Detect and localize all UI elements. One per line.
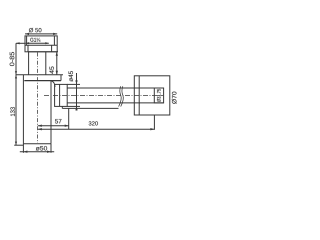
label Ø31.75 — [157, 89, 161, 102]
tube — [29, 52, 46, 75]
label 0-85 — [10, 52, 15, 66]
label 320 — [89, 121, 98, 125]
pipe stub in wall flange — [139, 88, 163, 103]
flange top nut — [25, 36, 58, 52]
label 57 — [55, 119, 61, 123]
pipe break symbol — [119, 86, 124, 106]
dimension Ø50 bottom — [20, 151, 54, 153]
label Ø50 top — [29, 28, 42, 32]
dimension Ø45 — [67, 73, 80, 111]
dimension 57 — [38, 108, 69, 129]
label G1 1/4 — [30, 38, 40, 42]
cup top ring — [16, 75, 63, 81]
centerline vertical — [36, 53, 38, 144]
dimension line Ø50 top — [25, 33, 57, 35]
label 45 — [49, 66, 53, 73]
dimension 0-85 / 133 shared line — [14, 42, 25, 145]
wall flange outer — [134, 76, 170, 115]
cup body — [23, 75, 55, 153]
dimension 45 vertical — [56, 52, 58, 75]
nut at cup outlet — [55, 84, 68, 106]
label Ø50 bottom — [36, 146, 47, 150]
dimension line G1 1/4 — [26, 42, 49, 44]
label Ø70 — [172, 92, 177, 104]
pipe centerline — [44, 94, 163, 96]
dimension 320 — [38, 115, 155, 130]
label Ø45 — [69, 71, 73, 81]
sleeve bottom line — [62, 106, 118, 108]
pipe horizontal — [67, 88, 140, 103]
framed dimension Ø31.75 — [154, 88, 163, 103]
label 133 — [10, 107, 14, 116]
